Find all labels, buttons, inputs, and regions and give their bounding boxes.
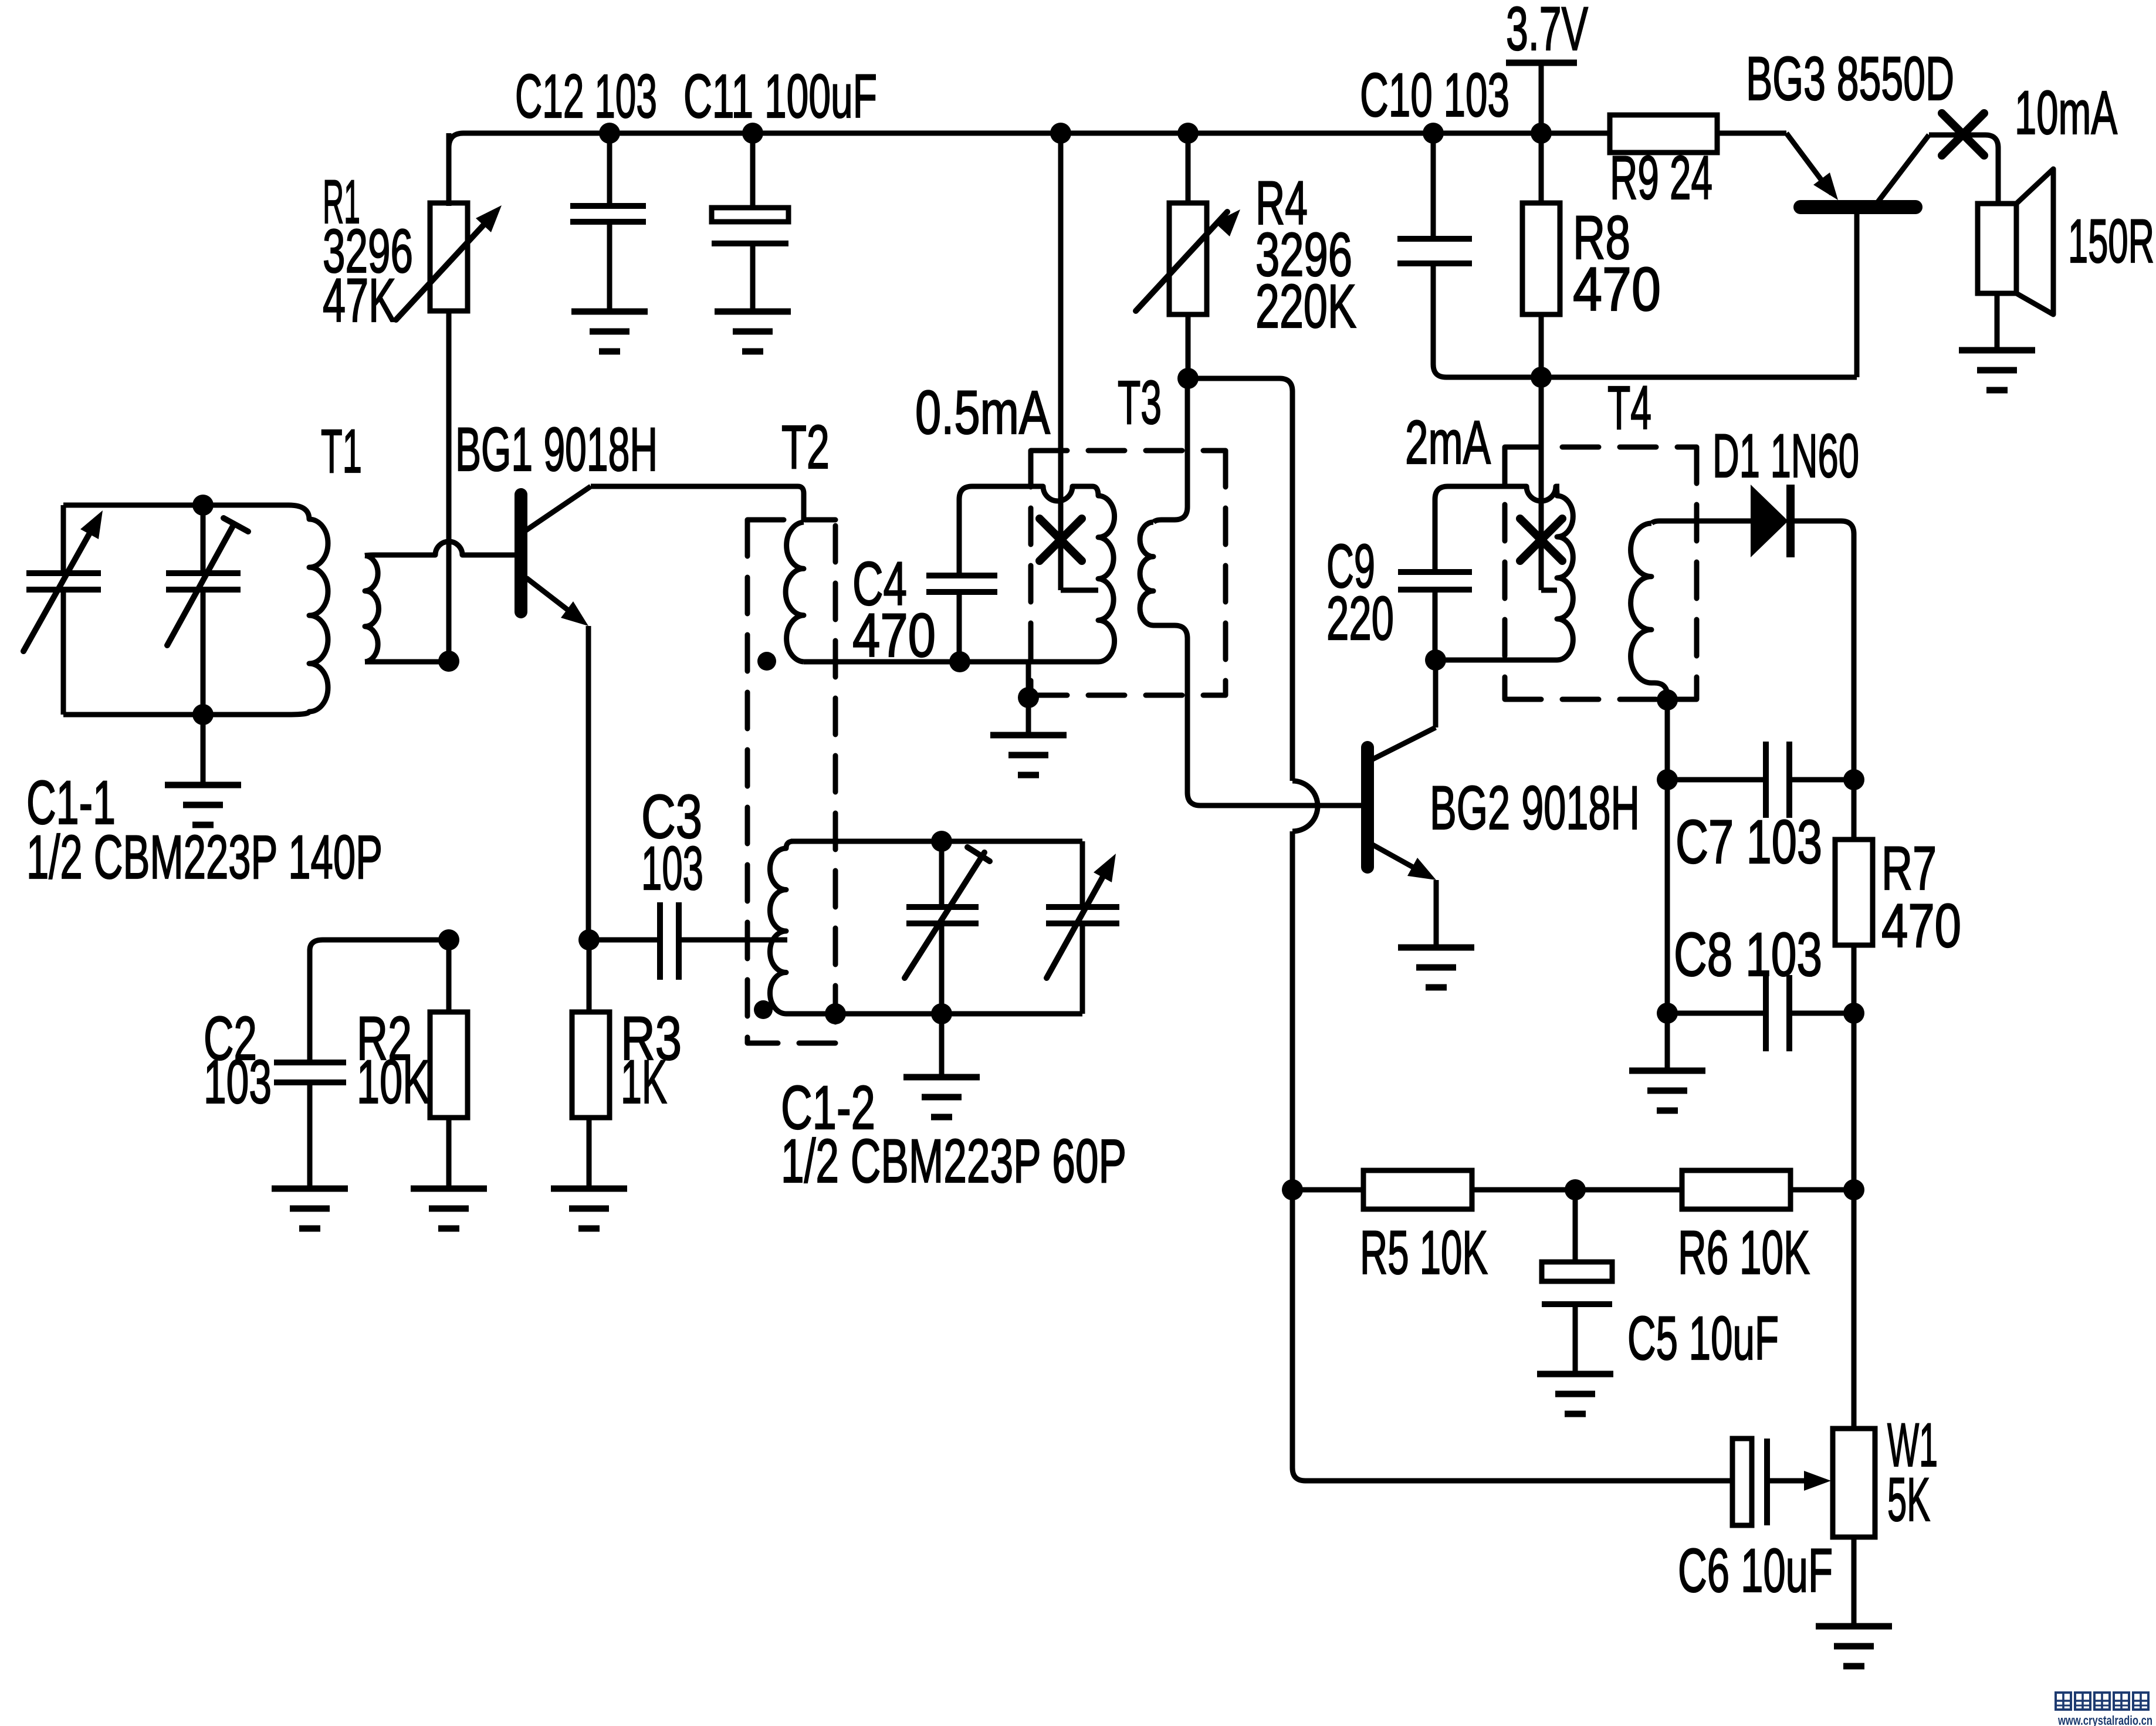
transformer T3 shield box (dashed) — [1031, 451, 1226, 695]
transformer T2 primary winding — [786, 522, 804, 662]
resistor R5 10K — [1292, 1170, 1575, 1209]
label BG1 9018H — [455, 415, 658, 484]
capacitor C7 103 — [1667, 742, 1854, 818]
power terminal 3.7V bar — [1506, 63, 1577, 133]
node R8 bottom — [1531, 367, 1552, 388]
winding polarity dot T2 secondary — [754, 1000, 773, 1019]
transformer T4 secondary winding — [1631, 523, 1651, 683]
label C10 103 — [1360, 61, 1509, 130]
label C4 — [852, 550, 907, 618]
capacitor C8 103 — [1667, 780, 1854, 1051]
svg-text:3.7V: 3.7V — [1506, 0, 1588, 63]
transistor BG1 9018H — [521, 486, 591, 940]
transformer T4 primary winding — [1556, 486, 1573, 660]
label C1-1 — [26, 769, 116, 837]
svg-text:1/2 CBM223P 140P: 1/2 CBM223P 140P — [26, 823, 383, 892]
ground under C7/C8 column — [1629, 1013, 1705, 1111]
ground under speaker — [1959, 350, 2035, 390]
transformer T4 shield box (dashed) — [1505, 447, 1697, 699]
wire BG3 base to R8 node — [1541, 375, 1857, 380]
label R3 1K — [621, 1048, 667, 1116]
watermark url — [2057, 1713, 2152, 1726]
label C1-2 value — [781, 1127, 1126, 1196]
label R4 220K — [1255, 272, 1356, 341]
svg-text:BG1 9018H: BG1 9018H — [455, 415, 658, 484]
label T3 — [1118, 368, 1162, 437]
node C8 right — [1843, 1003, 1864, 1024]
capacitor C3 103 — [589, 902, 787, 980]
capacitor C4 470 — [926, 486, 1092, 662]
resistor R1 (3296 47K trimmer) — [396, 133, 502, 660]
resistor R4 (3296 220K trimmer) — [1136, 133, 1240, 378]
svg-text:BG3 8550D: BG3 8550D — [1746, 45, 1954, 113]
ground under R2 — [411, 1189, 487, 1228]
svg-text:1/2 CBM223P 60P: 1/2 CBM223P 60P — [781, 1127, 1126, 1196]
variable capacitor C1-2b (main tuning, in right edge) — [1046, 841, 1119, 1014]
svg-text:T2: T2 — [781, 413, 830, 482]
svg-text:470: 470 — [852, 601, 936, 670]
resistor R3 1K — [572, 940, 610, 1189]
svg-text:R6 10K: R6 10K — [1678, 1219, 1810, 1287]
measuring point 0.5mA wire — [1058, 133, 1064, 590]
label C9 — [1326, 532, 1375, 601]
label C2 — [204, 1004, 257, 1073]
svg-text:0.5mA: 0.5mA — [915, 378, 1050, 447]
measuring point 2mA wire — [1539, 377, 1544, 590]
node C1-2 bottom mid — [931, 1003, 952, 1024]
label R8 470 — [1573, 255, 1661, 324]
measuring cross on T3 primary feed — [1040, 519, 1082, 561]
wire R4 node to AGC line — [1188, 378, 1292, 781]
wire T4 secondary bottom down — [1651, 683, 1667, 780]
label R2 10K — [357, 1048, 430, 1116]
node C9-T4-BG2collector — [1425, 649, 1446, 671]
node rail-C11 — [742, 123, 763, 144]
label 10mA — [2015, 79, 2117, 147]
node rail-C12 — [599, 123, 620, 144]
svg-text:1K: 1K — [621, 1048, 667, 1116]
wire C1-2 bottom edge — [791, 1011, 1082, 1017]
label C5 10uF — [1627, 1304, 1779, 1373]
label R1 47K — [323, 266, 396, 335]
wire node to C2 — [310, 940, 449, 1062]
ground under R3 — [551, 1189, 627, 1228]
label C9 220 — [1326, 584, 1394, 653]
wire T4 primary bottom to C9 node — [1436, 658, 1557, 663]
ground under W1 — [1816, 1626, 1892, 1666]
svg-text:BG2 9018H: BG2 9018H — [1430, 774, 1640, 842]
resistor R7 470 — [1835, 780, 1873, 1013]
svg-text:220K: 220K — [1255, 272, 1356, 341]
variable capacitor C1-1a (main, in left edge) — [23, 505, 103, 715]
capacitor C11 100uF (electrolytic) — [712, 133, 788, 312]
wire R7 to R6 node — [1852, 1013, 1857, 1190]
svg-text:C12 103: C12 103 — [515, 62, 657, 131]
transistor BG2 9018H — [1368, 660, 1436, 947]
label 150R — [2068, 207, 2154, 276]
ground under C1-2 — [903, 1014, 980, 1117]
label C2 103 — [204, 1048, 272, 1116]
transformer T1 secondary winding — [365, 556, 379, 662]
svg-text:T3: T3 — [1118, 368, 1162, 437]
capacitor C2 103 — [274, 1062, 346, 1189]
label W1 5K — [1887, 1466, 1930, 1534]
label R8 — [1573, 204, 1630, 272]
transformer T2 shield box (dashed) — [747, 520, 835, 1043]
svg-text:150R: 150R — [2068, 207, 2154, 276]
ground under C5 — [1537, 1374, 1613, 1414]
ground stub T3 shield — [990, 662, 1067, 775]
node C7 left — [1657, 769, 1678, 790]
capacitor C5 10uF (electrolytic) — [1542, 1190, 1612, 1374]
node C1-1 bottom — [192, 704, 214, 725]
ground under C11 — [715, 312, 791, 351]
measuring cross on T4 primary feed — [1520, 519, 1562, 561]
label 0.5mA — [915, 378, 1050, 447]
label R9 24 — [1610, 144, 1712, 212]
label C1-2 — [781, 1074, 875, 1142]
capacitor C9 220 — [1398, 486, 1559, 660]
wire T4 secondary top to D1 — [1651, 521, 1751, 523]
transistor BG3 8550D (PNP) — [1786, 133, 1998, 377]
node C1-2 coil bottom — [825, 1003, 846, 1024]
diode D1 1N60 — [1751, 485, 1854, 780]
svg-text:C11 100uF: C11 100uF — [683, 62, 877, 131]
svg-text:470: 470 — [1573, 255, 1661, 324]
node T4 secondary bottom — [1657, 689, 1678, 710]
svg-text:2mA: 2mA — [1405, 408, 1491, 477]
resistor R9 24 — [1541, 115, 1786, 153]
wire T4 primary tap — [1541, 588, 1557, 593]
speaker 150R — [1978, 169, 2053, 350]
label R2 — [357, 1004, 412, 1073]
svg-text:www.crystalradio.cn: www.crystalradio.cn — [2057, 1713, 2152, 1726]
ground under BG2 emitter — [1398, 947, 1474, 987]
label C3 103 — [641, 834, 703, 903]
node C7 right — [1843, 769, 1864, 790]
potentiometer W1 5K — [1833, 1190, 1875, 1626]
wire AGC line to C6 — [1292, 1190, 1732, 1481]
node R6-R7-W1 — [1843, 1179, 1864, 1200]
label C12 103 — [515, 62, 657, 131]
transformer T3 secondary winding — [1140, 522, 1153, 625]
wire T2 primary bottom to C4 node — [804, 659, 1092, 665]
label 3.7V — [1506, 0, 1588, 63]
node T1sec-R1 — [438, 651, 459, 672]
label T1 — [321, 417, 362, 486]
label C8 103 — [1674, 920, 1822, 989]
node T3 shield ground — [1018, 687, 1039, 708]
watermark logo — [2056, 1693, 2148, 1710]
svg-text:10mA: 10mA — [2015, 79, 2117, 147]
label BG3 8550D — [1746, 45, 1954, 113]
potentiometer W1 5K wiper arrow — [1767, 1471, 1831, 1491]
wire BG1 collector to T2 — [591, 486, 804, 522]
node AGC-R5 — [1282, 1179, 1303, 1200]
svg-text:C8 103: C8 103 — [1674, 920, 1822, 989]
transformer T2 secondary winding — [770, 841, 793, 1014]
label R7 470 — [1881, 892, 1961, 960]
svg-text:C10 103: C10 103 — [1360, 61, 1509, 130]
resistor R6 10K — [1575, 1170, 1854, 1209]
transformer T3 primary winding — [1092, 486, 1115, 662]
ground under C12 — [571, 312, 648, 351]
ground under C1-1 — [165, 715, 241, 825]
node C2-R2 — [438, 929, 459, 950]
wire AGC line hop over BG2 base wire — [1292, 781, 1318, 831]
wire T1 secondary bottom to node — [365, 659, 449, 665]
wire top supply rail — [449, 133, 1610, 206]
svg-text:103: 103 — [641, 834, 703, 903]
svg-text:10K: 10K — [357, 1048, 430, 1116]
svg-text:T1: T1 — [321, 417, 362, 486]
label R5 10K — [1360, 1219, 1488, 1287]
wire T3 secondary top to R4 node — [1153, 378, 1187, 522]
wire T3 primary tap — [1061, 588, 1098, 593]
node rail-R4 — [1177, 123, 1199, 144]
resistor R8 470 — [1522, 133, 1560, 377]
capacitor C12 103 — [570, 133, 646, 312]
label R1 3296 — [323, 217, 413, 286]
svg-text:220: 220 — [1326, 584, 1394, 653]
label C3 — [641, 783, 702, 851]
label R4 3296 — [1255, 221, 1352, 289]
resistor R2 10K — [430, 940, 468, 1189]
label R3 — [621, 1004, 682, 1073]
svg-text:C7 103: C7 103 — [1676, 808, 1822, 876]
svg-text:R9 24: R9 24 — [1610, 144, 1712, 212]
label D1 1N60 — [1712, 422, 1859, 490]
measuring cross 10mA — [1942, 113, 1984, 155]
node C8 left — [1657, 1003, 1678, 1024]
wire C1-2 top edge — [791, 839, 1082, 844]
wire T1 secondary to BG1 base (hop over R1 line) — [365, 542, 515, 556]
label R4 — [1255, 169, 1308, 238]
label W1 — [1887, 1411, 1938, 1480]
node C1-1 top — [192, 495, 214, 516]
label BG2 9018H — [1430, 774, 1640, 842]
label C4 470 — [852, 601, 936, 670]
variable capacitor C1-1b (trimmer) — [166, 505, 248, 715]
label R6 10K — [1678, 1219, 1810, 1287]
node rail-0.5mA — [1050, 123, 1071, 144]
wire T3 secondary bottom to BG2 base — [1153, 625, 1362, 806]
label C7 103 — [1676, 808, 1822, 876]
label T2 — [781, 413, 830, 482]
svg-text:T4: T4 — [1607, 374, 1651, 442]
transformer T1 primary winding — [63, 505, 328, 715]
svg-text:R5 10K: R5 10K — [1360, 1219, 1488, 1287]
label C6 10uF — [1678, 1537, 1833, 1605]
wire AGC line down to R5 — [1290, 831, 1295, 1190]
capacitor C6 10uF (electrolytic) — [1732, 1439, 1767, 1525]
node rail-3.7V — [1531, 123, 1552, 144]
label C11 100uF — [683, 62, 877, 131]
svg-text:470: 470 — [1881, 892, 1961, 960]
svg-text:47K: 47K — [323, 266, 396, 335]
svg-text:5K: 5K — [1887, 1466, 1930, 1534]
svg-text:D1 1N60: D1 1N60 — [1712, 422, 1859, 490]
label R1 — [323, 168, 360, 236]
node C4 bottom junction — [949, 651, 970, 672]
winding polarity dot T2 primary — [757, 652, 776, 671]
label R7 — [1881, 834, 1937, 903]
node C1-2 top — [931, 831, 952, 852]
wire T3 primary bottom (to C4 node) — [963, 659, 1098, 665]
label C1-1 value — [26, 823, 383, 892]
capacitor C10 103 — [1397, 133, 1541, 377]
svg-text:C6 10uF: C6 10uF — [1678, 1537, 1833, 1605]
node rail-C10 — [1423, 123, 1444, 144]
label T4 — [1607, 374, 1651, 442]
node R4 bottom — [1177, 368, 1199, 389]
svg-text:C5 10uF: C5 10uF — [1627, 1304, 1779, 1373]
ground under C2 — [272, 1189, 348, 1228]
node C3-R3 — [578, 929, 600, 950]
node R5-R6-C5 — [1565, 1179, 1586, 1200]
variable capacitor C1-2a (trimmer) — [905, 841, 990, 1014]
label 2mA — [1405, 408, 1491, 477]
svg-text:103: 103 — [204, 1048, 272, 1116]
